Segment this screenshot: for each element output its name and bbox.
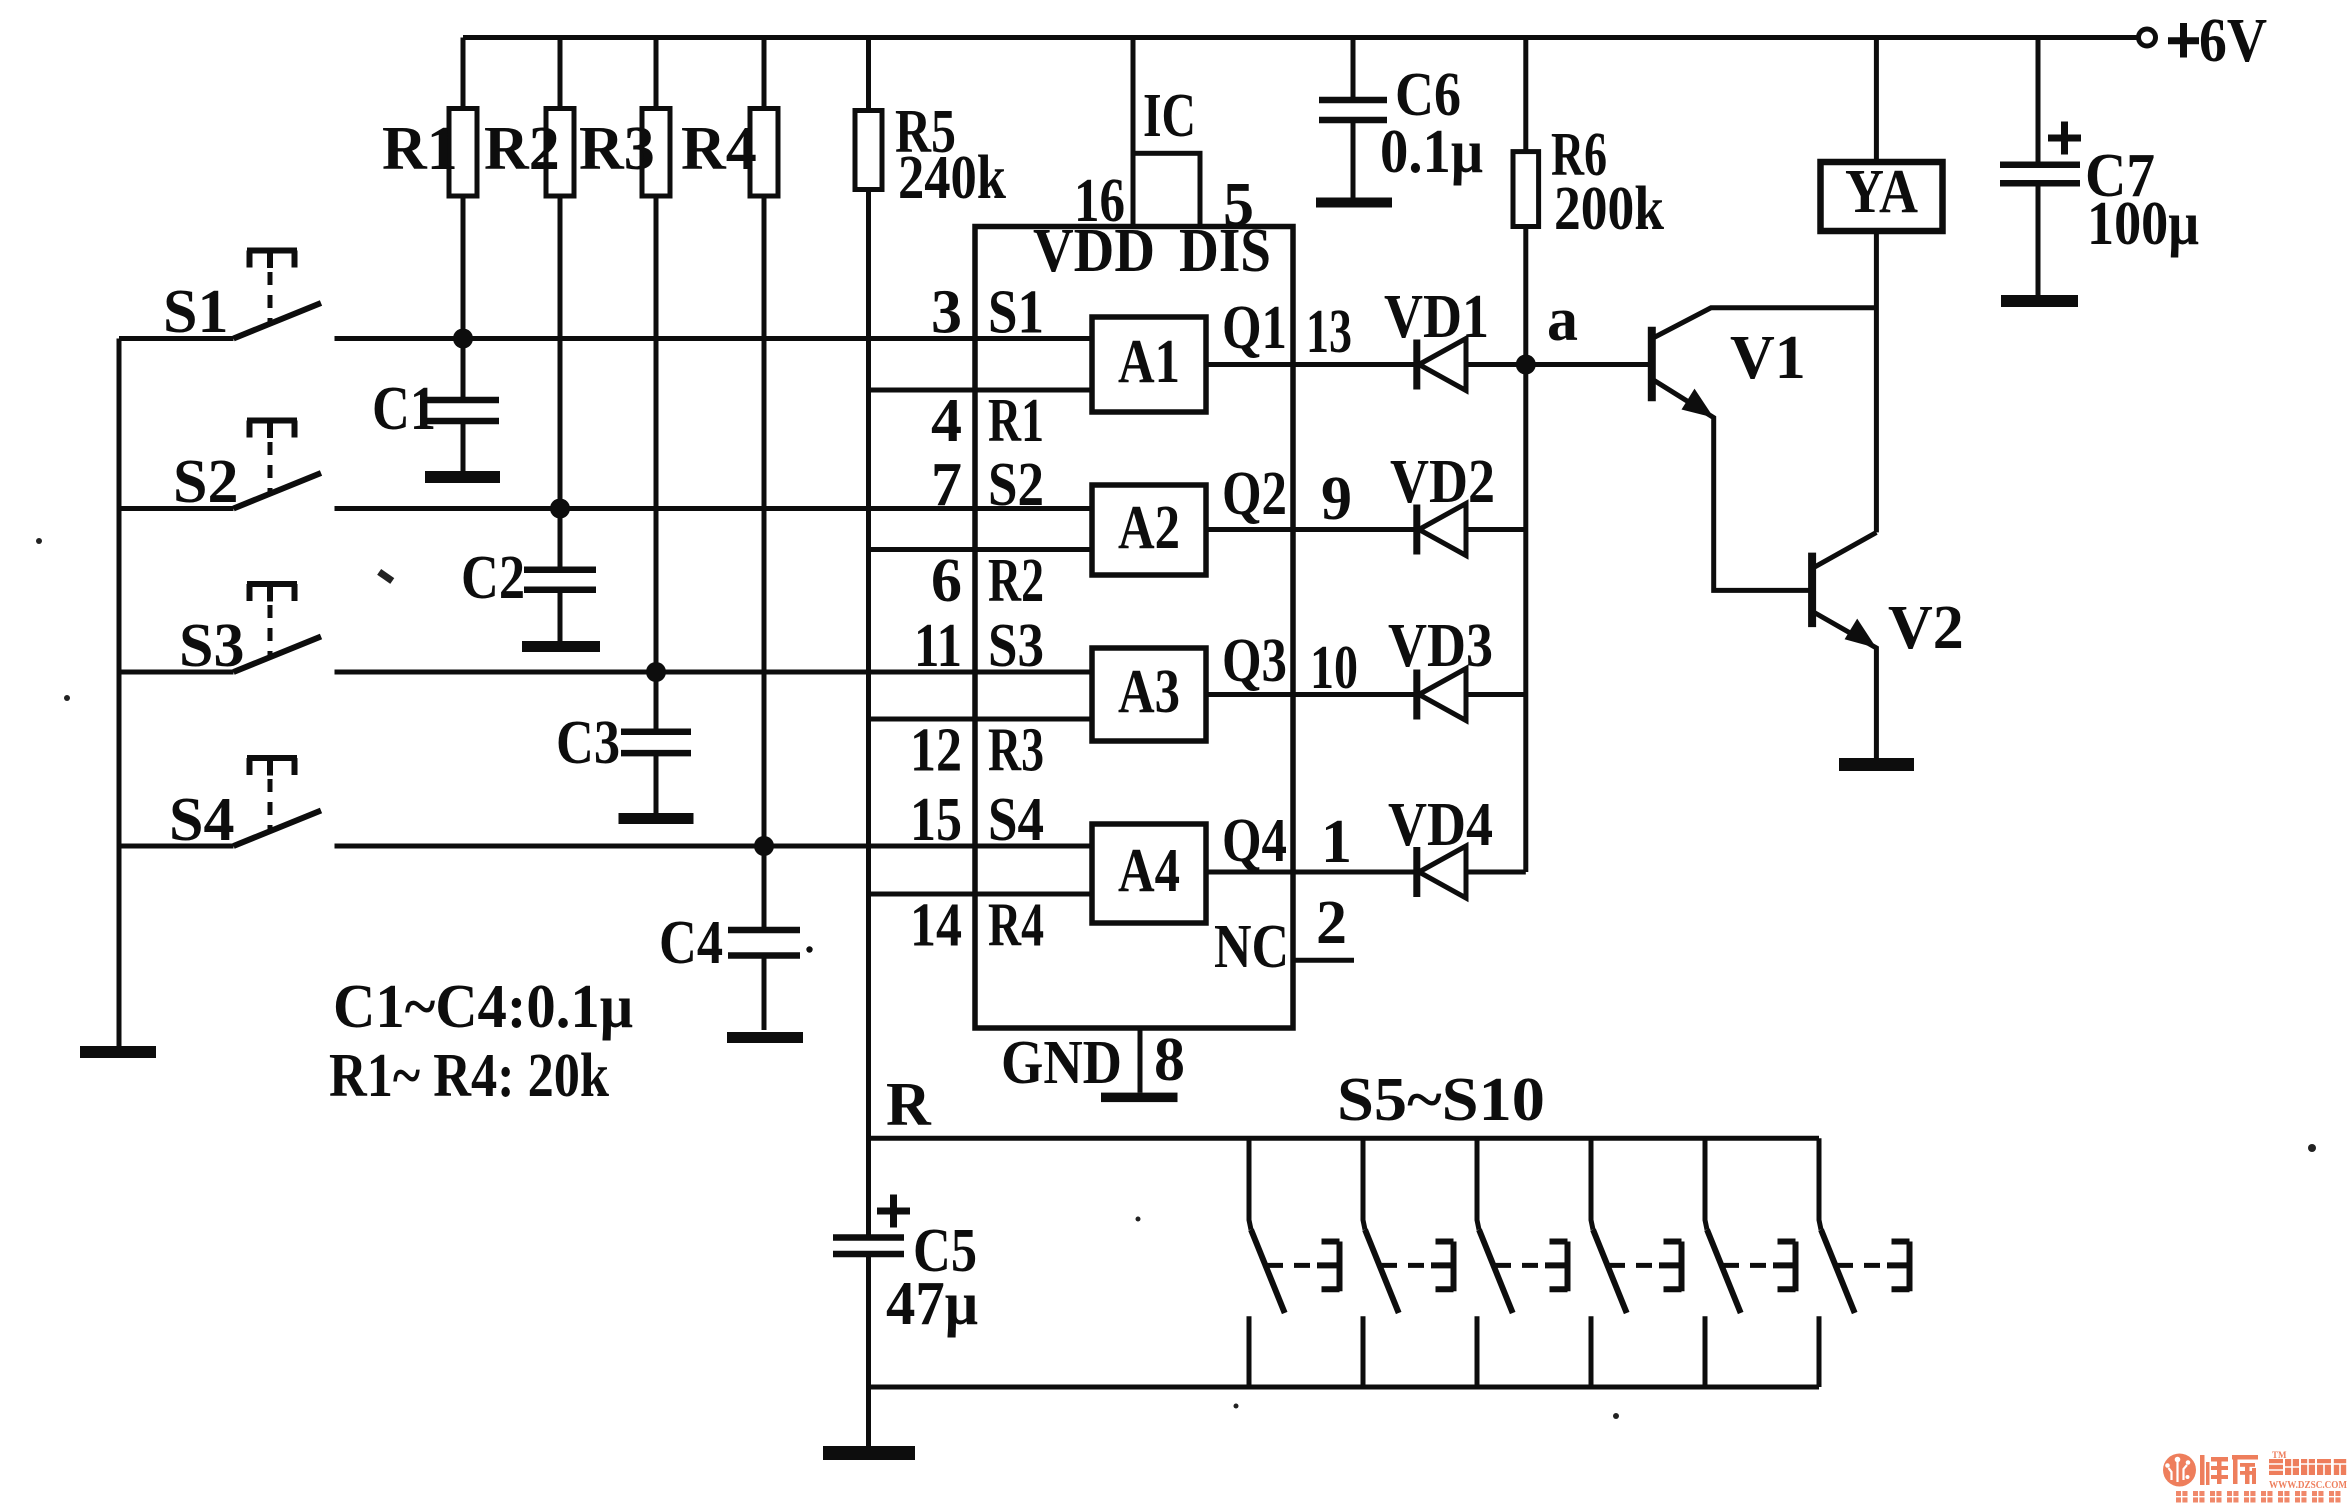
svg-text:7: 7 [931,451,962,519]
svg-text:VD4: VD4 [1388,791,1493,859]
svg-text:3: 3 [931,279,962,347]
svg-text:200k: 200k [1554,175,1664,243]
svg-text:4: 4 [931,387,962,455]
svg-text:14: 14 [910,892,962,960]
svg-text:S3: S3 [988,612,1044,680]
svg-text:VD2: VD2 [1390,448,1495,516]
svg-text:C1: C1 [372,375,436,443]
svg-text:R3: R3 [579,115,655,183]
svg-text:C2: C2 [461,544,525,612]
svg-text:R4: R4 [988,892,1044,960]
svg-text:C4: C4 [659,909,723,977]
svg-text:DIS: DIS [1179,217,1271,285]
svg-text:a: a [1547,286,1578,354]
svg-text:Q3: Q3 [1222,627,1287,695]
svg-text:C3: C3 [556,709,620,777]
svg-text:C1~C4:0.1μ: C1~C4:0.1μ [333,973,633,1041]
svg-text:S1: S1 [988,279,1044,347]
svg-text:V2: V2 [1888,594,1964,662]
svg-text:Q1: Q1 [1222,294,1287,362]
svg-text:11: 11 [914,612,962,680]
svg-text:V1: V1 [1730,324,1806,392]
svg-text:A3: A3 [1118,658,1180,726]
svg-text:TM: TM [2272,1450,2287,1460]
svg-text:R2: R2 [988,547,1044,615]
svg-text:R1: R1 [988,387,1044,455]
svg-text:A4: A4 [1118,837,1180,905]
svg-text:R1~ R4: 20k: R1~ R4: 20k [329,1042,609,1110]
svg-text:VDD: VDD [1033,217,1155,285]
svg-text:A1: A1 [1118,328,1180,396]
svg-text:Q2: Q2 [1222,460,1287,528]
svg-text:1: 1 [1321,808,1352,876]
svg-text:S1: S1 [163,278,228,346]
svg-text:VD3: VD3 [1388,612,1493,680]
svg-text:240k: 240k [898,144,1006,212]
svg-text:R3: R3 [988,717,1044,785]
svg-text:S5~S10: S5~S10 [1337,1066,1545,1134]
svg-text:15: 15 [910,786,962,854]
svg-text:12: 12 [910,717,962,785]
svg-text:8: 8 [1154,1026,1185,1094]
svg-text:IC: IC [1143,82,1196,150]
svg-text:2: 2 [1316,889,1347,957]
svg-text:GND: GND [1001,1029,1122,1097]
svg-text:NC: NC [1214,913,1289,981]
svg-text:R2: R2 [484,115,560,183]
svg-text:13: 13 [1306,298,1352,366]
svg-text:VD1: VD1 [1384,283,1489,351]
svg-text:Q4: Q4 [1222,807,1287,875]
svg-text:S2: S2 [988,451,1044,519]
svg-text:100μ: 100μ [2087,190,2199,258]
svg-text:S4: S4 [988,786,1044,854]
svg-text:S3: S3 [179,612,244,680]
svg-text:R: R [886,1071,932,1139]
svg-text:R4: R4 [681,115,757,183]
svg-text:S2: S2 [173,448,238,516]
svg-text:WWW.DZSC.COM: WWW.DZSC.COM [2269,1480,2347,1491]
svg-text:47μ: 47μ [886,1270,978,1338]
svg-text:6V: 6V [2199,7,2267,75]
svg-text:R1: R1 [382,115,458,183]
svg-text:S4: S4 [169,786,234,854]
svg-text:YA: YA [1845,158,1918,226]
svg-text:0.1μ: 0.1μ [1380,118,1483,186]
svg-text:A2: A2 [1118,494,1180,562]
svg-text:10: 10 [1310,634,1358,702]
svg-text:6: 6 [931,547,962,615]
svg-text:9: 9 [1321,465,1352,533]
